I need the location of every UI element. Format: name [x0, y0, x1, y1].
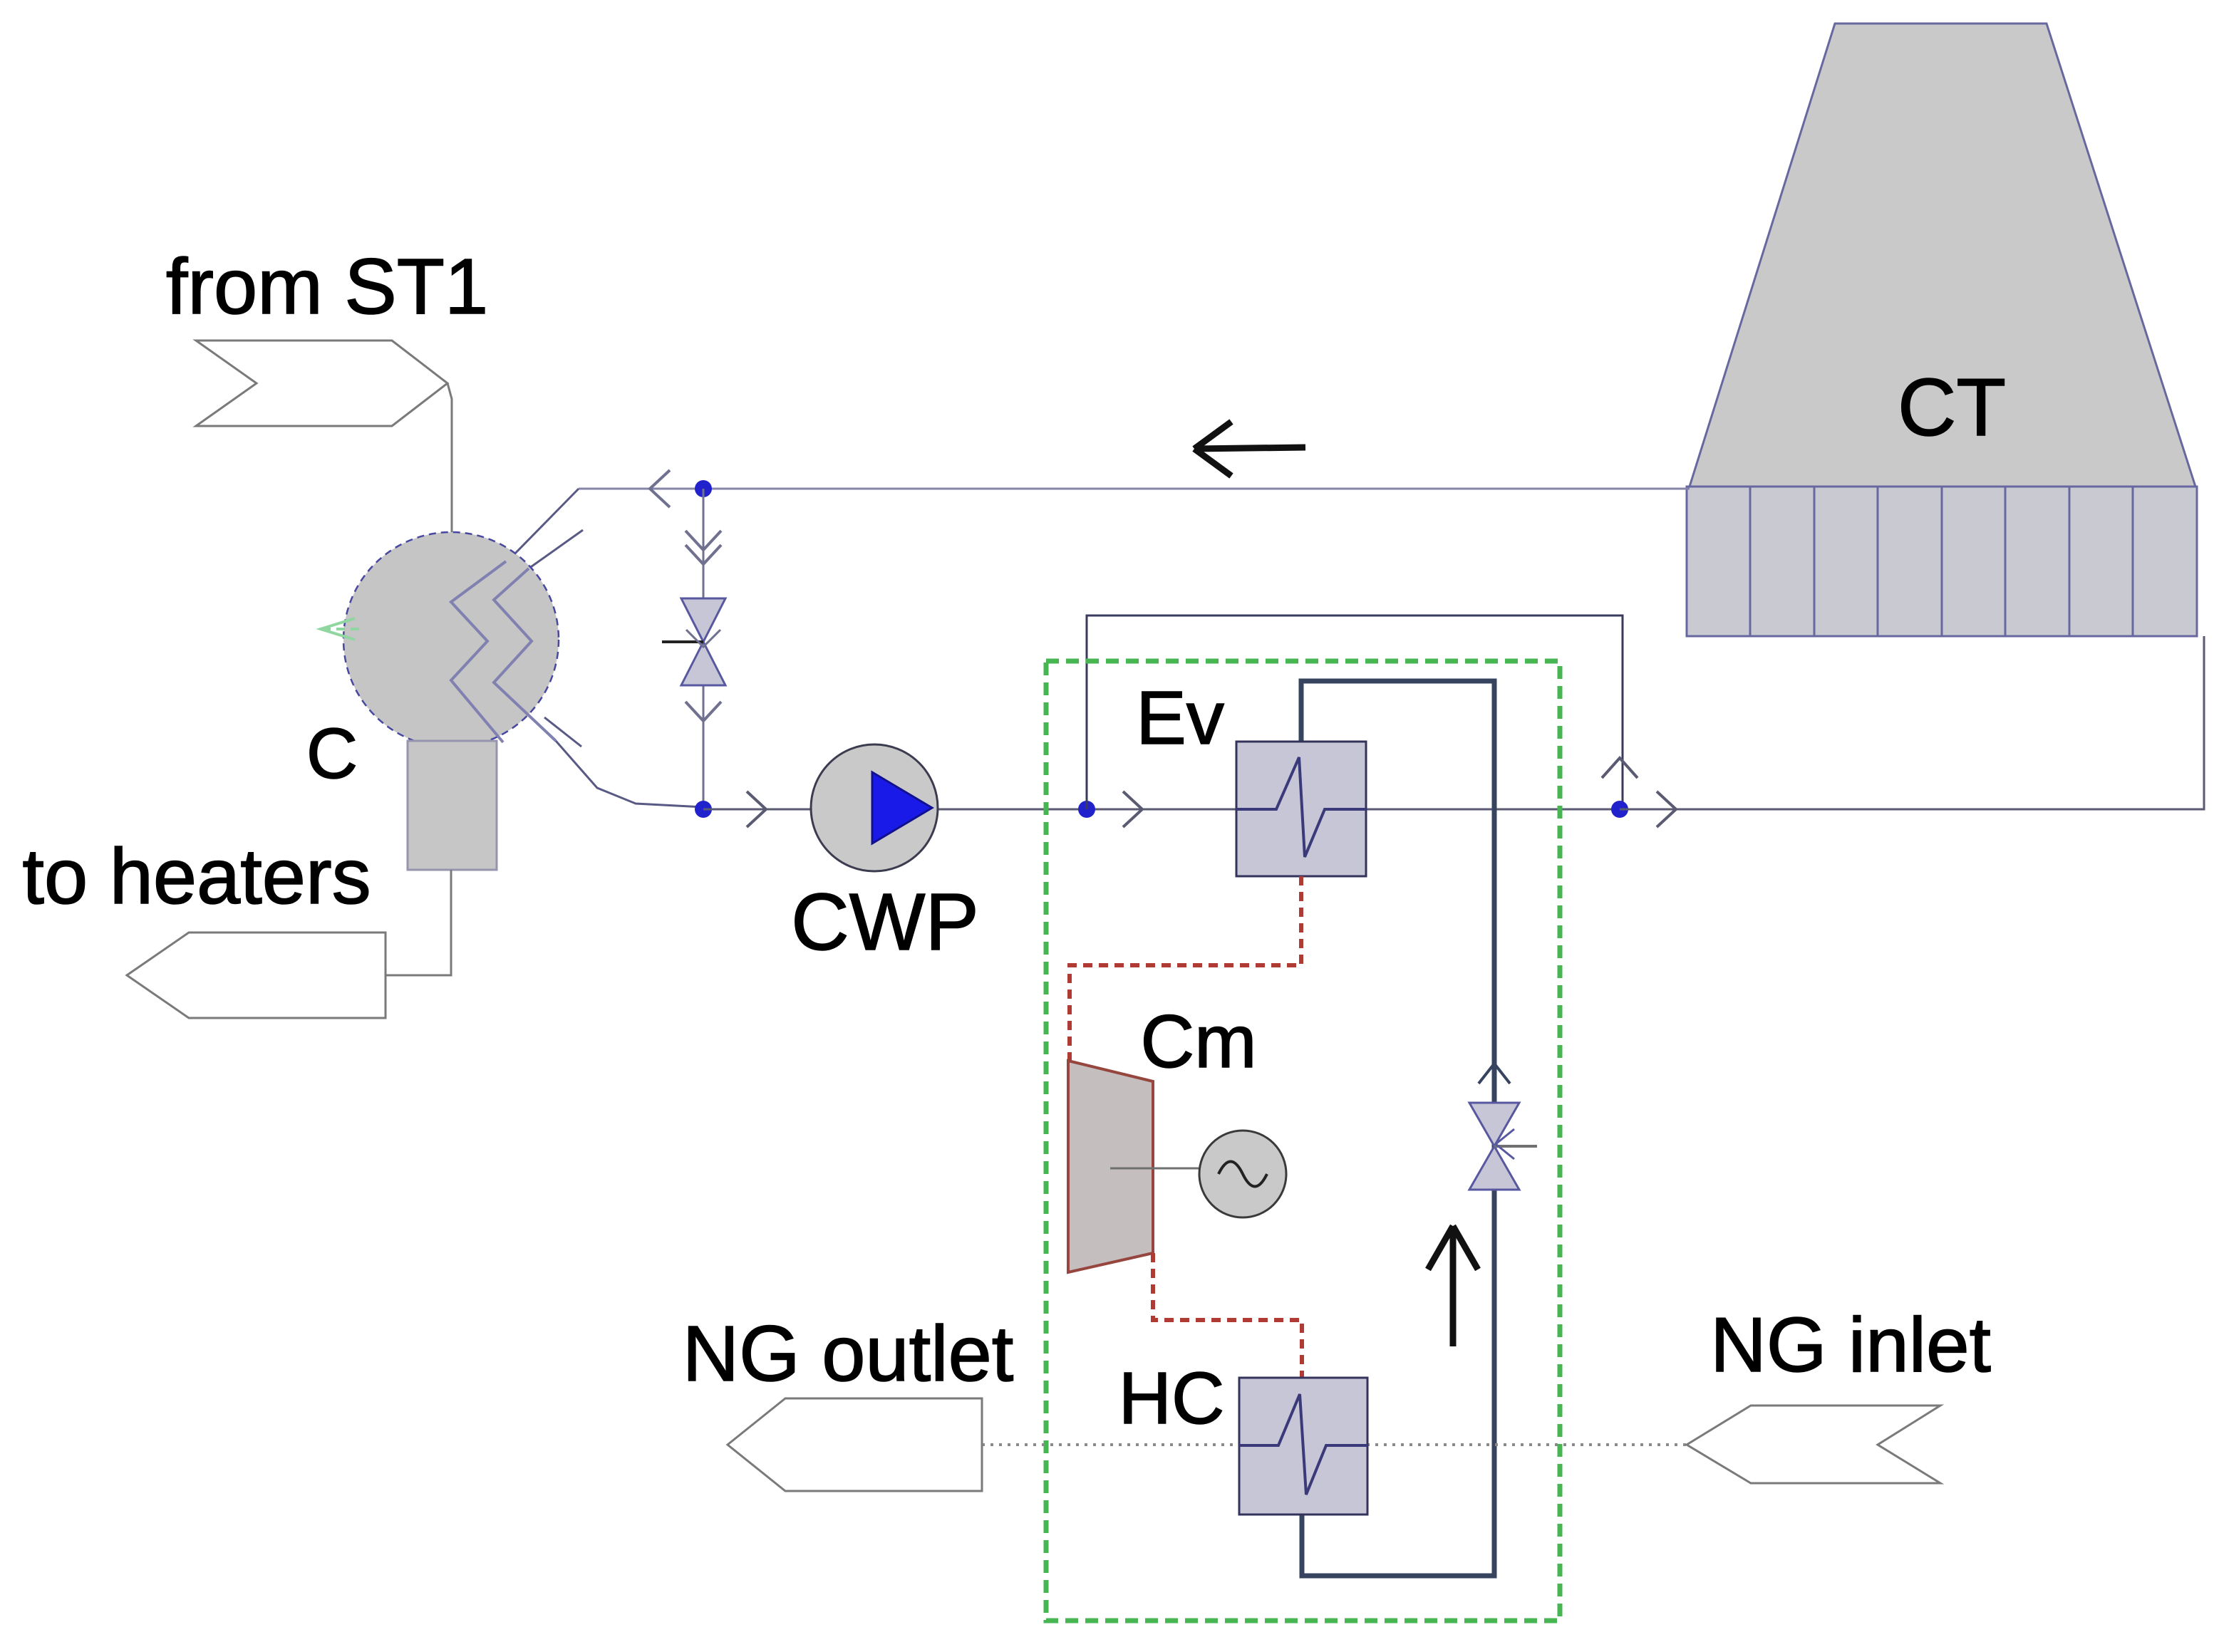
evaporator Ev body [1236, 742, 1366, 876]
refrigerant loop (thick navy): Ev top -> right header -> down -> bottom -> HC bottom [1301, 681, 1494, 1576]
shaft from Cm to motor [1110, 1168, 1199, 1170]
flag: NG outlet [728, 1398, 982, 1491]
pump CWP impeller triangle [872, 772, 932, 843]
node J1 (top pipe / bypass valve branch) [695, 480, 712, 497]
condenser C coil zigzag 2 [494, 568, 556, 741]
node J2 (pump suction junction) [695, 801, 712, 818]
cooling tower CT fill basin [1687, 487, 2197, 636]
flow chevron pointing down (below valve) [686, 702, 721, 721]
wire: from ST1 flag to condenser [448, 383, 452, 534]
flow chevron after J3 [1123, 791, 1142, 827]
svg-text:CWP: CWP [791, 877, 979, 967]
flag: from ST1 [196, 341, 448, 426]
flow chevron after J4 [1657, 791, 1676, 827]
green heat-reject arrow at condenser [321, 618, 362, 640]
black flow arrow (upwards) beside refrigerant riser [1428, 1226, 1478, 1346]
wire: warmed water back to CT (right) [1620, 636, 2204, 809]
svg-text:Cm: Cm [1140, 1000, 1256, 1084]
flow chevrons pointing down (above valve) [686, 531, 721, 550]
svg-text:from ST1: from ST1 [166, 243, 488, 331]
refrigerant discharge line (red dashed) Cm -> HC [1153, 1253, 1302, 1378]
svg-text:CT: CT [1898, 363, 2006, 453]
pump CWP body [811, 744, 938, 871]
compressor Cm [1068, 1061, 1153, 1272]
flag: NG inlet [1687, 1406, 1940, 1483]
flag: to heaters [127, 933, 386, 1018]
svg-text:to heaters: to heaters [22, 833, 371, 920]
svg-text:NG outlet: NG outlet [683, 1310, 1014, 1398]
wire: cooled water pipe from CT to condenser (top) [579, 488, 1690, 490]
wire: main cooling water line (pump suction to Ev and J4) [703, 809, 1620, 811]
wire: bypass branch vertical [703, 489, 705, 809]
flow chevron pointing up above V2 [1479, 1064, 1510, 1084]
condenser C hotwell [408, 741, 497, 870]
svg-text:NG inlet: NG inlet [1710, 1302, 1991, 1388]
svg-text:HC: HC [1119, 1357, 1225, 1439]
green dashed boundary of heat pump package [1046, 661, 1560, 1621]
flow chevron before pump [747, 791, 766, 827]
expansion valve V2 on refrigerant riser [1469, 1103, 1537, 1190]
NG dotted line (outlet flag to inlet flag) [982, 1443, 1687, 1446]
cooling tower CT body [1690, 24, 2195, 487]
condenser C shell [343, 532, 559, 747]
heater-condenser HC body [1239, 1378, 1367, 1515]
evaporator Ev tube lightning [1236, 757, 1366, 857]
wire: bypass over Ev (left riser, top run, right drop) [1087, 615, 1623, 809]
wire: condenser outlet (lower wall, curves to pump suction) [556, 741, 703, 807]
black flow arrow (to the left) above top pipe [1194, 422, 1305, 476]
svg-text:Ev: Ev [1136, 676, 1224, 760]
flow chevron pointing up on right drop [1602, 758, 1638, 778]
wire: diagonal pipe into condenser (lower wall) [529, 530, 583, 568]
wire: hotwell to heaters [386, 870, 451, 975]
flow arrow on top pipe (thin chevron) [650, 470, 670, 507]
HC tube lightning [1239, 1394, 1367, 1495]
svg-text:C: C [306, 714, 358, 794]
wire: diagonal pipe into condenser (upper wall) [506, 489, 579, 563]
refrigerant suction line (red dashed) Ev -> Cm [1070, 876, 1301, 1061]
motor / generator M [1199, 1131, 1286, 1217]
node J3 (Ev inlet branch) [1078, 801, 1095, 818]
condenser C coil zigzag 1 [451, 561, 506, 742]
node J4 (Ev outlet junction) [1611, 801, 1628, 818]
valve V1 (bypass spray valve) [662, 598, 725, 685]
wire: condenser outlet (upper wall stub) [544, 717, 581, 747]
